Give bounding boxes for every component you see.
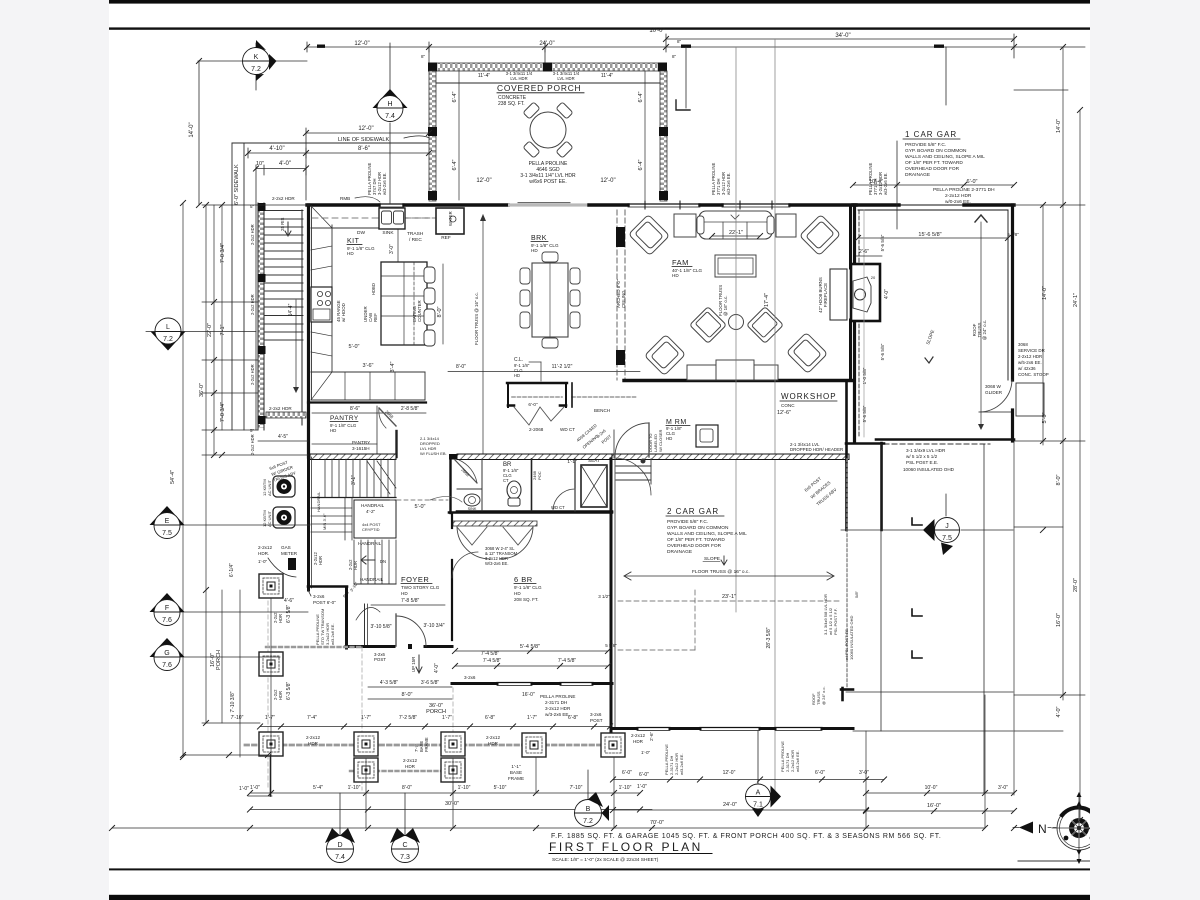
- svg-text:GAS: GAS: [281, 545, 291, 550]
- svg-text:HDR: HDR: [488, 741, 499, 746]
- svg-text:HD: HD: [514, 373, 520, 378]
- svg-text:1'-7": 1'-7": [361, 715, 371, 721]
- svg-text:7.6: 7.6: [162, 662, 172, 669]
- svg-text:w/3-2x6 EE.: w/3-2x6 EE.: [545, 712, 570, 717]
- dim 6'-4" rotated right porch: [644, 71, 646, 200]
- 3 seasons slab vertical lines: [880, 444, 882, 731]
- window callout rotated left: [367, 162, 387, 195]
- svg-text:14'-4": 14'-4": [288, 303, 294, 316]
- porch header line: [436, 82, 660, 84]
- svg-text:GYP. BOARD ON COMMON: GYP. BOARD ON COMMON: [905, 148, 967, 154]
- M RM vanity: [696, 425, 718, 447]
- svg-text:3'-0": 3'-0": [859, 770, 869, 776]
- svg-text:MIN 3'-6": MIN 3'-6": [322, 513, 327, 530]
- bottom dim row y722: [265, 715, 578, 721]
- svg-text:7.5: 7.5: [942, 535, 952, 542]
- svg-text:SINK: SINK: [468, 507, 477, 511]
- dim tick marks top: [317, 45, 944, 48]
- section bubble F 7.6: [150, 593, 309, 626]
- bottom border line: [109, 868, 1090, 870]
- left dim lines: [202, 205, 310, 590]
- svg-text:24'-0": 24'-0": [539, 41, 554, 47]
- svg-text:POST: POST: [374, 657, 386, 662]
- svg-text:AC UNIT: AC UNIT: [267, 510, 272, 527]
- fam side tables: [674, 214, 696, 237]
- svg-text:7.2: 7.2: [163, 336, 173, 343]
- porch checkered band left: [429, 71, 436, 201]
- 15'-6 5/8" dim: [858, 237, 1008, 239]
- svg-text:11'-2 1/2": 11'-2 1/2": [552, 364, 573, 370]
- bath sink: [464, 494, 480, 506]
- svg-text:4'-0": 4'-0": [279, 161, 291, 167]
- section bubble G 7.6: [150, 638, 281, 671]
- svg-text:2 CAR GAR: 2 CAR GAR: [667, 507, 719, 516]
- svg-text:CT: CT: [503, 478, 509, 483]
- 1 car garage top wall right: [964, 203, 1014, 206]
- porch corner post right: [658, 63, 667, 72]
- svg-text:7'-0 3/4": 7'-0 3/4": [220, 243, 226, 263]
- kitchen left wall: [307, 205, 310, 457]
- svg-text:HDR: HDR: [278, 614, 283, 623]
- foyer-6br divider: [451, 513, 453, 528]
- long section line x=736: [735, 48, 737, 612]
- svg-text:PELLA PROLINE 2-3771 DH: PELLA PROLINE 2-3771 DH: [933, 187, 995, 193]
- svg-text:7'-2 5/8": 7'-2 5/8": [399, 715, 418, 721]
- svg-text:7.4: 7.4: [335, 854, 345, 861]
- svg-text:7'-4 5/8": 7'-4 5/8": [481, 651, 500, 657]
- svg-text:POST 6'-0": POST 6'-0": [313, 600, 336, 605]
- svg-text:34'-0": 34'-0": [835, 33, 850, 39]
- svg-text:54'-4": 54'-4": [170, 470, 176, 484]
- svg-text:REF: REF: [373, 313, 378, 322]
- svg-text:REF: REF: [441, 235, 451, 241]
- fam armchair bottom-right: [786, 332, 827, 373]
- porch round table: [530, 112, 566, 148]
- svg-text:6'-0" SIDEWALK: 6'-0" SIDEWALK: [234, 164, 240, 205]
- svg-text:BENCH: BENCH: [594, 408, 610, 413]
- svg-text:COVERED PORCH: COVERED PORCH: [497, 83, 581, 93]
- svg-text:2-2x2 HDR: 2-2x2 HDR: [250, 364, 255, 385]
- svg-text:8'-0": 8'-0": [402, 692, 413, 698]
- service door note: [1018, 342, 1049, 377]
- svg-text:HD: HD: [514, 591, 521, 596]
- svg-text:17'-4": 17'-4": [764, 293, 770, 307]
- svg-text:w/3-2x6 EE.: w/3-2x6 EE.: [883, 172, 888, 195]
- svg-text:HDR: HDR: [353, 561, 358, 570]
- svg-text:PELLA PROLINE: PELLA PROLINE: [540, 694, 576, 699]
- svg-text:SERVICE DR: SERVICE DR: [1018, 348, 1045, 353]
- svg-text:6'-3 5/8": 6'-3 5/8": [286, 681, 292, 700]
- svg-text:WALLS AND CEILING, SLOPE A MIL: WALLS AND CEILING, SLOPE A MIL: [905, 154, 985, 160]
- svg-text:1'-10": 1'-10": [458, 785, 471, 791]
- handrail box: [354, 500, 396, 538]
- house left wall mid: [307, 457, 310, 590]
- 70'-0" overall dim: [112, 827, 985, 829]
- 3 seasons slab horizontal lines: [846, 691, 1013, 693]
- svg-text:AC UNIT: AC UNIT: [267, 479, 272, 496]
- svg-text:2'-6": 2'-6": [859, 249, 869, 255]
- svg-text:10060 INSULATED OHD: 10060 INSULATED OHD: [849, 616, 854, 660]
- svg-text:TWO STORY CLG: TWO STORY CLG: [401, 585, 440, 590]
- svg-text:208 SQ. FT.: 208 SQ. FT.: [514, 597, 539, 602]
- svg-text:2-2x2 HDR: 2-2x2 HDR: [250, 224, 255, 245]
- svg-text:10": 10": [256, 161, 264, 167]
- svg-text:w/6x6 POST EE.: w/6x6 POST EE.: [529, 179, 566, 185]
- svg-text:E: E: [165, 518, 170, 525]
- fam armchair top-right: [799, 214, 840, 255]
- title block right line: [1018, 860, 1090, 862]
- svg-text:7'-10 3/8": 7'-10 3/8": [230, 691, 236, 712]
- svg-text:1'-10": 1'-10": [619, 785, 632, 791]
- section bubble D 7.4: [325, 793, 355, 863]
- svg-text:24'-0": 24'-0": [723, 802, 737, 808]
- stair arrows lower: [361, 556, 375, 564]
- svg-text:3-1 3/4x9 LVL HDR: 3-1 3/4x9 LVL HDR: [906, 448, 946, 453]
- svg-text:238 SQ. FT.: 238 SQ. FT.: [498, 101, 525, 107]
- porch mid posts: [428, 127, 437, 136]
- svg-text:HDR: HDR: [278, 691, 283, 700]
- hatched wall band pantry: [310, 454, 396, 460]
- 6BR door arc big: [614, 458, 651, 495]
- svg-text:25 RIS: 25 RIS: [280, 218, 285, 231]
- dim row 10" 4'-0": [256, 165, 306, 430]
- svg-text:C: C: [402, 842, 407, 849]
- hall closet: [507, 382, 567, 384]
- svg-text:5'-6 5/8": 5'-6 5/8": [880, 234, 885, 251]
- svg-text:4'-10": 4'-10": [269, 146, 284, 152]
- svg-text:10'-4": 10'-4": [869, 179, 883, 185]
- svg-text:HDBD: HDBD: [371, 283, 376, 295]
- top wall kitchen segment: [307, 203, 379, 206]
- svg-text:WALLS AND CEILING, SLOPE A MIL: WALLS AND CEILING, SLOPE A MIL: [667, 531, 747, 537]
- svg-text:L: L: [166, 324, 170, 331]
- svg-text:7'-10": 7'-10": [231, 715, 244, 721]
- entry double door arcs: [457, 526, 490, 559]
- top dimension line row: [307, 34, 1014, 63]
- svg-text:6'-0": 6'-0": [622, 770, 632, 776]
- svg-text:3-2x12 HDR: 3-2x12 HDR: [545, 706, 571, 711]
- svg-text:7'-10": 7'-10": [570, 785, 583, 791]
- foyer porch door wall: [346, 645, 394, 648]
- driveway reference lines: [685, 47, 687, 108]
- svg-text:POST: POST: [590, 718, 603, 723]
- svg-text:6'-0": 6'-0": [815, 770, 825, 776]
- svg-text:WD CT: WD CT: [560, 427, 575, 432]
- fam center table: [729, 315, 744, 330]
- wall y513 foyer-6br top: [449, 511, 612, 514]
- svg-text:2-2x12 HDR: 2-2x12 HDR: [1018, 354, 1042, 359]
- stair lower run: [354, 540, 396, 584]
- svg-text:6'-0": 6'-0": [639, 772, 649, 778]
- svg-text:HANDRAIL: HANDRAIL: [360, 577, 384, 582]
- section bubble A 7.1: [746, 731, 782, 817]
- svg-text:1'-0": 1'-0": [637, 784, 647, 790]
- svg-text:3-1615H: 3-1615H: [352, 446, 370, 451]
- svg-text:1'-0": 1'-0": [258, 559, 268, 564]
- svg-text:4'-0": 4'-0": [1056, 706, 1062, 717]
- porch center post: [543, 63, 552, 72]
- window tick marks fam top: [645, 201, 772, 209]
- fam tv rug rect: [715, 255, 756, 277]
- svg-text:7'-0 3/4": 7'-0 3/4": [220, 402, 226, 422]
- svg-text:8'-0": 8'-0": [437, 306, 443, 317]
- dotted porch lines vertical: [267, 580, 269, 790]
- svg-text:12'-6": 12'-6": [777, 410, 791, 416]
- svg-text:12'-0": 12'-0": [358, 126, 373, 132]
- svg-text:w/ 5 1/2 x 5 1/2: w/ 5 1/2 x 5 1/2: [906, 454, 938, 459]
- fam wall window band: [628, 203, 700, 205]
- svg-text:RMB: RMB: [340, 196, 350, 201]
- svg-text:36'-0": 36'-0": [199, 383, 205, 397]
- interior stair upper run: [325, 459, 395, 497]
- svg-text:2-2x2 HDR: 2-2x2 HDR: [250, 294, 255, 315]
- svg-text:DROPPED HDR/ HEADER: DROPPED HDR/ HEADER: [790, 447, 843, 452]
- svg-text:DRAINAGE: DRAINAGE: [667, 549, 692, 555]
- svg-text:B: B: [586, 806, 591, 813]
- svg-text:2-3171 DH: 2-3171 DH: [545, 700, 567, 705]
- pella proline rotated right porch: [664, 741, 800, 775]
- svg-text:PSL POST E.E.: PSL POST E.E.: [906, 460, 938, 465]
- svg-text:FLOOR TRUSS @ 16" o.c.: FLOOR TRUSS @ 16" o.c.: [692, 569, 750, 575]
- svg-text:PROVIDE 5/8" F.C.: PROVIDE 5/8" F.C.: [667, 519, 708, 525]
- svg-text:M RM: M RM: [666, 419, 687, 426]
- svg-text:3'-6 5/8": 3'-6 5/8": [421, 680, 440, 686]
- svg-text:7.2: 7.2: [251, 66, 261, 73]
- kitchen sink unit: [379, 208, 405, 229]
- svg-text:A: A: [756, 790, 761, 797]
- brk chairs left: [520, 252, 580, 348]
- svg-text:WATER: WATER: [448, 211, 453, 226]
- svg-text:12'-0": 12'-0": [600, 178, 615, 184]
- linen closet door arc: [553, 489, 575, 511]
- svg-text:8": 8": [677, 39, 682, 44]
- section bubble H 7.4: [373, 43, 408, 203]
- svg-text:1'-1": 1'-1": [567, 459, 577, 464]
- svg-text:7.4: 7.4: [385, 113, 395, 120]
- dashed region garage: [694, 590, 696, 650]
- svg-text:3'-6": 3'-6": [363, 363, 374, 369]
- svg-text:5'-10": 5'-10": [494, 785, 507, 791]
- svg-text:14'-0": 14'-0": [189, 122, 195, 137]
- workshop right walls: [845, 382, 848, 460]
- svg-text:3-2x6: 3-2x6: [313, 594, 325, 599]
- svg-text:16'-0": 16'-0": [522, 692, 535, 698]
- svg-text:2-2068: 2-2068: [529, 427, 544, 432]
- svg-text:CEILING: CEILING: [621, 290, 626, 308]
- svg-text:PROVIDE 5/8" F.C.: PROVIDE 5/8" F.C.: [905, 142, 946, 148]
- bath door arc: [455, 460, 477, 483]
- counter cabinet ticks left: [311, 246, 332, 356]
- svg-text:5'-4": 5'-4": [313, 785, 323, 791]
- svg-text:1'-7": 1'-7": [527, 715, 537, 721]
- stair checkered edge: [259, 205, 264, 428]
- fam right wall lower: [849, 320, 852, 380]
- svg-text:6'-4": 6'-4": [452, 159, 458, 170]
- svg-text:12'-0": 12'-0": [723, 770, 736, 776]
- svg-text:HD: HD: [666, 436, 672, 441]
- svg-text:5'-6 5/8": 5'-6 5/8": [880, 343, 885, 360]
- svg-text:5/8": 5/8": [854, 590, 859, 598]
- svg-text:5": 5": [250, 428, 255, 433]
- garage up arrow: [975, 215, 987, 222]
- svg-text:BRK: BRK: [531, 235, 547, 242]
- 1 car garage left wall: [853, 205, 856, 262]
- porch chair NW: [523, 102, 540, 119]
- svg-text:2-2x12: 2-2x12: [631, 733, 645, 738]
- svg-text:6'-0": 6'-0": [967, 179, 978, 185]
- svg-text:3068: 3068: [1018, 342, 1028, 347]
- svg-text:3'-0": 3'-0": [998, 785, 1008, 791]
- svg-text:6'-4": 6'-4": [638, 159, 644, 170]
- svg-text:w/ 42x36: w/ 42x36: [1018, 366, 1036, 371]
- 1 car garage top wall left: [853, 203, 899, 206]
- svg-text:8'-0": 8'-0": [1056, 474, 1062, 485]
- 14'-0" left dim: [198, 61, 200, 205]
- svg-text:FRAME: FRAME: [424, 737, 429, 752]
- porch chair SW: [523, 141, 540, 158]
- svg-text:6 BR: 6 BR: [514, 575, 533, 584]
- svg-text:HANDRAIL: HANDRAIL: [316, 491, 321, 512]
- left gray margin: [0, 0, 109, 900]
- svg-text:3 1/2": 3 1/2": [598, 594, 610, 599]
- svg-text:TRASH: TRASH: [407, 231, 424, 237]
- svg-text:4'-0": 4'-0": [884, 289, 890, 299]
- stair posts black: [258, 203, 266, 424]
- svg-text:2-2x12 HDR: 2-2x12 HDR: [945, 193, 972, 199]
- garage door opening: [899, 204, 964, 206]
- svg-text:HDR.: HDR.: [258, 551, 269, 556]
- fam chair center-right: [747, 307, 784, 344]
- svg-text:70'-0": 70'-0": [650, 820, 664, 826]
- svg-text:16'-0": 16'-0": [927, 803, 941, 809]
- corner L marks: [912, 518, 922, 658]
- kitchen bottom counter: [311, 371, 425, 373]
- svg-text:4'-6": 4'-6": [284, 598, 294, 604]
- svg-text:3-2x6: 3-2x6: [590, 712, 602, 717]
- svg-text:8'-0": 8'-0": [402, 785, 412, 791]
- svg-text:COUNTER: COUNTER: [417, 300, 422, 322]
- svg-text:1'-0 5/8": 1'-0 5/8": [862, 367, 867, 384]
- svg-text:SCALE: 1/8" = 1'-0" (2x SCALE: SCALE: 1/8" = 1'-0" (2x SCALE @ 22x34 SH…: [552, 857, 659, 863]
- fam bottom wall: [624, 379, 852, 382]
- svg-text:HD: HD: [401, 591, 408, 596]
- svg-text:2-2x2 HDR: 2-2x2 HDR: [250, 434, 255, 455]
- svg-text:14'-0": 14'-0": [1042, 286, 1048, 300]
- range: [311, 287, 332, 322]
- fam right wall upper: [849, 205, 852, 268]
- seat box: [581, 465, 607, 507]
- svg-text:11'-4": 11'-4": [478, 73, 491, 79]
- svg-text:1'-7": 1'-7": [265, 715, 275, 721]
- floor truss long arrow: [625, 575, 833, 577]
- svg-text:HD: HD: [330, 428, 336, 433]
- top border line: [109, 27, 1090, 29]
- svg-text:HANDRAIL: HANDRAIL: [358, 541, 382, 546]
- glider door arc 1car: [979, 380, 1012, 412]
- dim row 4'-10" / 8'-6": [248, 148, 430, 158]
- svg-text:2-2x2 HDR: 2-2x2 HDR: [272, 196, 295, 201]
- svg-text:5 5/8": 5 5/8": [1007, 232, 1019, 237]
- svg-text:5": 5": [250, 204, 255, 209]
- svg-text:BASE: BASE: [510, 770, 522, 775]
- svg-text:5'-0": 5'-0": [349, 344, 360, 350]
- long section line x=775: [774, 40, 776, 792]
- svg-text:POC: POC: [537, 471, 542, 480]
- top wall brk segment: [404, 203, 508, 206]
- svg-text:HD: HD: [347, 251, 354, 256]
- svg-text:8'-6": 8'-6": [350, 406, 360, 412]
- kitchen island: [381, 262, 427, 345]
- svg-text:F: F: [165, 605, 169, 612]
- kitchen window at sink: [379, 203, 404, 205]
- svg-text:HD: HD: [672, 273, 679, 278]
- svg-text:1'-7": 1'-7": [442, 715, 452, 721]
- stair mid landing treads: [311, 498, 352, 540]
- 1 car garage right wall lower: [1011, 410, 1014, 441]
- porch chair NE: [556, 102, 573, 119]
- island stools: [424, 267, 435, 346]
- stair strip rails: [258, 203, 302, 430]
- 6 BR bottom windows wall: [452, 682, 497, 685]
- svg-text:30'-0": 30'-0": [445, 801, 459, 807]
- svg-text:WD CT: WD CT: [551, 505, 565, 510]
- svg-text:5'-6 5/8": 5'-6 5/8": [862, 405, 867, 422]
- svg-text:2-2x12: 2-2x12: [486, 735, 500, 740]
- bath toilet: [507, 481, 521, 499]
- svg-text:w/3-2x6 EE.: w/3-2x6 EE.: [679, 753, 684, 775]
- svg-text:CONC: CONC: [781, 403, 795, 408]
- bath room walls: [457, 510, 612, 513]
- window callout rotated right: [868, 162, 888, 195]
- svg-text:7.1: 7.1: [753, 802, 763, 809]
- compass inner dots: [1064, 836, 1095, 841]
- svg-text:D: D: [337, 842, 342, 849]
- svg-text:CRYPTID: CRYPTID: [362, 527, 380, 532]
- svg-text:14'-0": 14'-0": [1056, 119, 1062, 133]
- 1 car garage bottom wall: [876, 438, 1014, 441]
- svg-text:HD: HD: [531, 248, 538, 253]
- svg-text:6'-4": 6'-4": [452, 91, 458, 102]
- svg-text:1'-0": 1'-0": [250, 785, 260, 791]
- svg-text:PSL POST F.F.: PSL POST F.F.: [833, 608, 838, 635]
- svg-text:FIREPLACE: FIREPLACE: [823, 283, 828, 307]
- svg-text:w/5-2x6 EE.: w/5-2x6 EE.: [1018, 360, 1042, 365]
- 8'-0" island dim: [442, 264, 444, 344]
- svg-text:8'-0": 8'-0": [456, 364, 466, 370]
- svg-text:OVERHEAD DOOR FOR: OVERHEAD DOOR FOR: [905, 166, 960, 172]
- svg-text:8": 8": [672, 54, 677, 59]
- svg-text:H: H: [387, 101, 392, 108]
- stair up diagonal arrow: [367, 461, 390, 494]
- section bubble E 7.5: [150, 506, 311, 539]
- hall wall x449: [449, 459, 451, 513]
- svg-text:7.2: 7.2: [583, 818, 593, 825]
- svg-text:4'-3 5/8": 4'-3 5/8": [380, 680, 399, 686]
- svg-text:OF 1/8" PER FT. TOWARD: OF 1/8" PER FT. TOWARD: [905, 160, 963, 166]
- dimension tick marks: [109, 36, 1092, 830]
- svg-text:6'-4": 6'-4": [638, 91, 644, 102]
- svg-text:3068 W: 3068 W: [985, 384, 1001, 389]
- 2-2x12 HDR labels row: [306, 733, 645, 769]
- svg-text:1'-0": 1'-0": [239, 786, 249, 792]
- svg-text:HDR: HDR: [308, 741, 319, 746]
- svg-text:W/ FLUSH EB.: W/ FLUSH EB.: [420, 451, 447, 456]
- svg-text:FIRST FLOOR PLAN: FIRST FLOOR PLAN: [549, 840, 703, 854]
- svg-text:16'-0": 16'-0": [1056, 613, 1062, 627]
- svg-text:6'-3 5/8": 6'-3 5/8": [286, 604, 292, 623]
- svg-text:w/ HOOD: w/ HOOD: [341, 303, 346, 322]
- brk table: [532, 263, 568, 337]
